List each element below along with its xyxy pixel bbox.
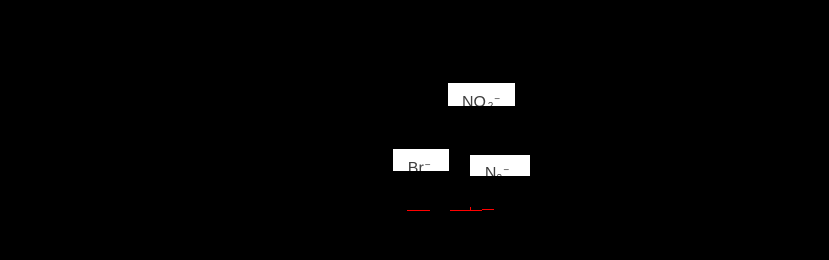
red underline segment 3: [482, 209, 494, 210]
label box NO2-: [448, 83, 515, 106]
red tick: [469, 207, 472, 211]
label box N3-: [470, 155, 530, 177]
red underline segment 2: [450, 210, 482, 211]
red underline segment 1: [407, 210, 430, 211]
label box Br-: [393, 149, 449, 171]
